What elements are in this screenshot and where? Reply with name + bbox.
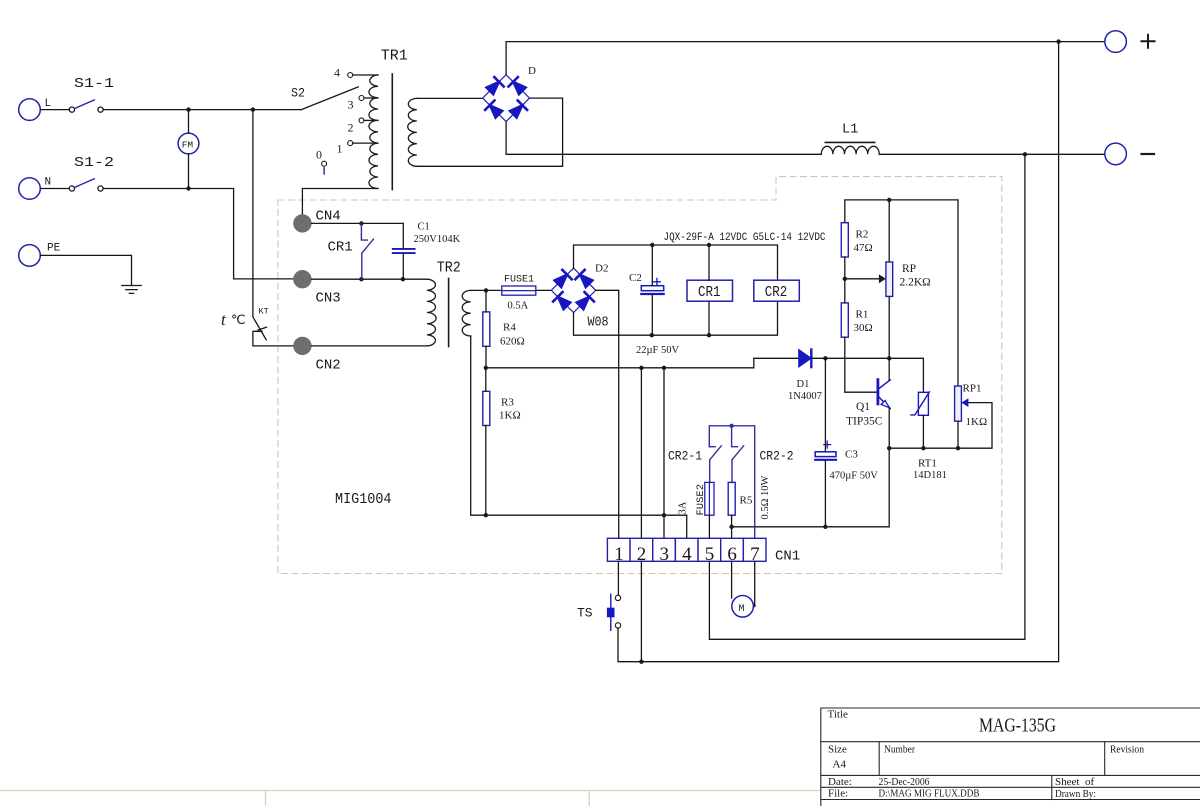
wire tap4 to TR1 [353, 74, 378, 76]
junction Q1 collector node [887, 356, 891, 360]
terminal PE [19, 245, 41, 267]
wire RT1 bottom lead [922, 415, 924, 448]
relay contact CR2-1 [709, 446, 721, 483]
wire R1 leads to Q1 base [845, 279, 877, 392]
junction CR1 top [359, 221, 363, 225]
junction CR2-2 top [729, 424, 733, 428]
transformer TR1 core [391, 74, 393, 190]
svg-text:47Ω: 47Ω [854, 242, 873, 254]
terminal minus [1105, 143, 1127, 165]
bridge D diode lower-left [485, 101, 502, 118]
potentiometer RP1 [955, 386, 969, 421]
junction emitter bus [887, 446, 891, 450]
wire C2 leads [651, 245, 653, 335]
motor M [732, 596, 754, 618]
svg-text:Revision: Revision [1110, 743, 1144, 755]
wire S1-1 to S2 (L line) [103, 109, 301, 111]
bridge rectifier D outline [483, 75, 530, 122]
svg-text:Q1: Q1 [856, 401, 870, 413]
pushbutton TS [615, 595, 620, 628]
svg-text:2: 2 [348, 121, 354, 135]
svg-text:C2: C2 [629, 272, 642, 284]
junction RP1 bottom [956, 446, 960, 450]
svg-text:L1: L1 [842, 123, 858, 138]
tap 0 stub [323, 168, 325, 175]
svg-text:14D181: 14D181 [913, 470, 947, 481]
svg-text:CN2: CN2 [316, 358, 341, 374]
junction RP top [887, 198, 891, 202]
svg-text:S1-1: S1-1 [74, 76, 114, 92]
wire emitter bus to RP1 wiper corner [889, 403, 992, 449]
svg-text:S2: S2 [291, 85, 305, 100]
svg-text:MIG1004: MIG1004 [335, 491, 392, 508]
junction TS line / pin2 [639, 660, 643, 664]
svg-text:TR1: TR1 [381, 47, 408, 64]
junction CR1 coil top [707, 243, 711, 247]
relay contact CR2-2 [732, 426, 744, 483]
svg-text:CR1: CR1 [698, 284, 721, 301]
resistor R5 [728, 482, 735, 515]
wire KT drop from L line [252, 110, 254, 317]
MIG1004 dashed enclosure box [278, 177, 1002, 574]
junction C1 bottom [401, 277, 405, 281]
wire pin6 to motor [731, 561, 733, 598]
tap 4 [348, 73, 353, 78]
connector CN4 [293, 214, 311, 232]
diode D1 [799, 350, 812, 368]
svg-text:W08: W08 [588, 315, 609, 330]
svg-text:250V104K: 250V104K [414, 234, 461, 245]
junction C2 bottom [650, 333, 654, 337]
wire pin5 below CN1 to minus riser [709, 154, 1025, 639]
svg-text:Drawn By:: Drawn By: [1055, 788, 1096, 800]
wire C1 bottom lead [402, 254, 404, 279]
svg-text:C1: C1 [418, 222, 430, 233]
wire CN2 to TR2 primary bottom [312, 345, 427, 347]
svg-text:A4: A4 [833, 759, 847, 771]
wire R2 bottom to node [844, 257, 846, 279]
junction C3 bottom [823, 525, 827, 529]
svg-text:2.2KΩ: 2.2KΩ [900, 277, 931, 289]
transformer TR1 secondary winding [408, 98, 417, 166]
junction minus line / pin5 riser [1023, 152, 1027, 156]
svg-text:FUSE1: FUSE1 [504, 275, 534, 286]
svg-text:CR2-2: CR2-2 [760, 450, 794, 464]
svg-text:0.5A: 0.5A [508, 301, 529, 312]
transformer TR2 core [448, 279, 450, 347]
wire pin2 below CN1 [640, 561, 642, 661]
svg-text:3: 3 [348, 98, 354, 112]
wire C3 leads [824, 358, 826, 527]
junction plus line / TS riser [1056, 39, 1060, 43]
svg-text:CN3: CN3 [316, 291, 341, 307]
wire R3 leads [485, 368, 487, 515]
wire plus output line [506, 42, 1105, 75]
svg-text:CR2: CR2 [765, 284, 788, 301]
svg-text:RT1: RT1 [918, 458, 937, 470]
svg-text:Sheet of: Sheet of [1055, 776, 1094, 788]
svg-text:S1-2: S1-2 [74, 155, 114, 171]
potentiometer RP [845, 200, 893, 358]
junction KT tap [251, 107, 255, 111]
resistor R4 [483, 312, 490, 346]
capacitor C2 [641, 278, 663, 294]
svg-text:JQX-29F-A 12VDC G5LC-14 12VDC: JQX-29F-A 12VDC G5LC-14 12VDC [664, 232, 826, 244]
bridge D2 diode lower-left [553, 292, 570, 309]
junction TR2 bottom / R3 node [484, 513, 488, 517]
svg-text:TIP35C: TIP35C [846, 416, 883, 428]
junction C3 top [823, 356, 827, 360]
bridge D diode lower-right [510, 101, 527, 118]
tap 2 [359, 118, 364, 123]
svg-text:TR2: TR2 [437, 259, 461, 276]
transformer TR1 primary winding [369, 75, 378, 189]
svg-text:R5: R5 [740, 495, 753, 507]
tap 3 [359, 96, 364, 101]
wire TR2 secondary top to bridge D2 [471, 289, 552, 291]
connector CN3 [293, 270, 311, 288]
svg-text:M: M [739, 604, 745, 615]
svg-text:D2: D2 [595, 263, 608, 275]
svg-text:Size: Size [828, 743, 847, 755]
switch S1-1 [69, 100, 103, 112]
sheet border faint line bottom [0, 791, 821, 806]
wire pin3 riser [663, 368, 665, 539]
title block frame [821, 708, 1200, 806]
svg-text:22µF 50V: 22µF 50V [636, 345, 680, 356]
junction pin3 riser [662, 366, 666, 370]
wire TR2 secondary bottom down and right to R3 bottom node [471, 336, 486, 515]
wire CR1 coil leads [708, 245, 710, 335]
terminal plus [1105, 31, 1127, 53]
svg-text:C3: C3 [845, 449, 858, 461]
wire FUSE2 to pin5 [708, 515, 710, 538]
connector CN1 [607, 538, 766, 561]
junction pin2 riser [639, 366, 643, 370]
capacitor C3 [815, 441, 836, 460]
svg-text:RP1: RP1 [963, 383, 982, 395]
svg-text:4: 4 [682, 544, 692, 565]
svg-text:30Ω: 30Ω [854, 322, 873, 334]
tap 1 [348, 141, 353, 146]
svg-text:MAG-135G: MAG-135G [979, 715, 1056, 737]
wire N to S1-2 [40, 188, 69, 190]
svg-text:1KΩ: 1KΩ [966, 416, 988, 428]
terminal L [19, 99, 41, 121]
label plus sign [1142, 35, 1155, 48]
svg-text:FUSE2: FUSE2 [695, 484, 707, 516]
junction RT1 bottom [921, 446, 925, 450]
wire bridge D right vertex down to TR1 secondary bottom [417, 98, 563, 166]
svg-text:R1: R1 [856, 309, 869, 321]
bridge rectifier D2 outline [551, 268, 595, 312]
junction R5 / pin6 / output node [729, 525, 733, 529]
svg-text:KT: KT [259, 307, 269, 317]
svg-text:Date:: Date: [828, 776, 852, 788]
wire tap1 to TR1 [353, 142, 378, 144]
transformer TR2 secondary winding [462, 290, 471, 336]
wire CR2 contacts blue rail to pin7 [709, 426, 754, 539]
svg-text:R2: R2 [856, 229, 869, 241]
fan motor FM [178, 133, 199, 154]
junction C2 top [650, 243, 654, 247]
bridge D diode upper-right [509, 77, 526, 94]
wire Q1 collector riser [888, 358, 890, 380]
wire TR1 primary bottom to CN4 [302, 189, 378, 215]
svg-text:R4: R4 [503, 322, 516, 334]
wire PE to ground [40, 255, 131, 285]
svg-text:Title: Title [828, 709, 849, 721]
bridge D diode upper-left [486, 77, 503, 94]
wire pin1 to TS [617, 561, 619, 595]
fuse FUSE1 [502, 286, 536, 295]
wire TR1 secondary top to bridge D [417, 97, 483, 99]
fuse FUSE2 [705, 482, 714, 515]
svg-text:25-Dec-2006: 25-Dec-2006 [879, 776, 930, 788]
svg-text:PE: PE [47, 243, 61, 255]
wire minus output line from bridge D bottom [506, 122, 1105, 155]
svg-text:R3: R3 [501, 397, 514, 409]
relay coil CR1 [687, 280, 733, 301]
svg-text:1N4007: 1N4007 [788, 391, 822, 402]
wire W08 right vertex down to CN1 pin1 [596, 290, 619, 538]
bridge D2 diode upper-left [554, 270, 571, 287]
junction FM top [186, 107, 190, 111]
wire R3 node to pin4 [486, 515, 687, 538]
junction R4/R3 node [484, 366, 488, 370]
svg-text:CR1: CR1 [328, 240, 353, 256]
wire tap3 to TR1 [364, 97, 378, 99]
resistor R2 [841, 223, 848, 257]
junction motor right [752, 604, 756, 608]
ground [122, 286, 141, 294]
inductor L1 core bar [825, 141, 874, 143]
transistor Q1 [878, 380, 890, 409]
svg-text:1KΩ: 1KΩ [499, 410, 521, 422]
relay contact CR1 [361, 223, 373, 279]
label minus sign [1142, 153, 1155, 155]
svg-text:L: L [45, 98, 52, 110]
svg-text:D:\MAG MIG FLUX.DDB: D:\MAG MIG FLUX.DDB [879, 787, 980, 799]
wire RP1 bottom lead [957, 421, 959, 448]
svg-text:CN4: CN4 [316, 208, 341, 224]
wire relay minus bus from D2 bottom vertex [574, 301, 778, 335]
capacitor C1 [393, 249, 415, 253]
varistor RT1 [911, 392, 930, 415]
thermostat KT [253, 317, 293, 346]
wire CN4 to C1 top [312, 223, 404, 248]
svg-text:D1: D1 [797, 379, 810, 390]
svg-text:D: D [528, 65, 536, 77]
wire FM leads [188, 110, 190, 189]
bridge D2 diode lower-right [577, 292, 594, 309]
wire R4 node bus to D1 with jog [486, 358, 799, 368]
terminal N [19, 178, 41, 200]
inductor L1 [821, 146, 879, 154]
svg-text:4: 4 [334, 66, 340, 80]
wire TS bottom to plus riser [618, 42, 1059, 662]
svg-text:℃: ℃ [231, 312, 246, 327]
wire tap2 to TR1 [364, 119, 378, 121]
svg-text:TS: TS [577, 606, 593, 621]
svg-text:CR2-1: CR2-1 [668, 450, 702, 464]
junction CR1 bottom [359, 277, 363, 281]
wire CN3 to TR2 primary top [312, 278, 427, 280]
svg-text:Number: Number [884, 743, 915, 755]
wire divider top line [845, 200, 958, 386]
wire relay plus rail from D2 top vertex [574, 245, 778, 280]
junction FM bottom [186, 186, 190, 190]
svg-text:RP: RP [902, 263, 916, 275]
svg-text:File:: File: [828, 787, 848, 799]
tap 0 [322, 161, 327, 166]
resistor R3 [483, 391, 490, 425]
svg-text:3A: 3A [678, 501, 689, 514]
wire D1 cathode to RT1 top [811, 358, 923, 392]
junction pin3/pin4 node [662, 513, 666, 517]
svg-text:3: 3 [660, 544, 670, 565]
wire S1-2 to corner, down, to CN3 [103, 189, 293, 279]
wire Q1 emitter drop [888, 408, 890, 448]
svg-text:N: N [45, 177, 52, 189]
svg-text:0: 0 [316, 148, 322, 162]
svg-text:0.5Ω 10W: 0.5Ω 10W [760, 475, 771, 519]
bridge D2 diode upper-right [575, 270, 592, 287]
relay coil CR2 [754, 280, 800, 301]
junction CR1 coil bottom [707, 333, 711, 337]
resistor R1 [841, 303, 848, 337]
svg-text:620Ω: 620Ω [500, 336, 525, 348]
connector CN2 [293, 337, 311, 355]
wire L to S1-1 [40, 109, 69, 111]
junction R4 top [484, 288, 488, 292]
junction R2/R1/wiper node [843, 277, 847, 281]
svg-text:470µF 50V: 470µF 50V [830, 471, 879, 482]
wire pin2 riser [640, 368, 642, 539]
wire output node down-left to R5 node [732, 448, 890, 527]
wire R5 bottom to pin6 [731, 515, 733, 538]
switch S1-2 [69, 179, 103, 191]
wire pin7 to motor [754, 561, 756, 605]
wire R4 leads [485, 290, 487, 367]
svg-text:FM: FM [182, 139, 194, 150]
svg-text:1: 1 [337, 142, 343, 156]
selector switch S2 blade [301, 87, 358, 110]
transformer TR2 primary winding [427, 279, 436, 346]
svg-text:CN1: CN1 [775, 549, 800, 565]
